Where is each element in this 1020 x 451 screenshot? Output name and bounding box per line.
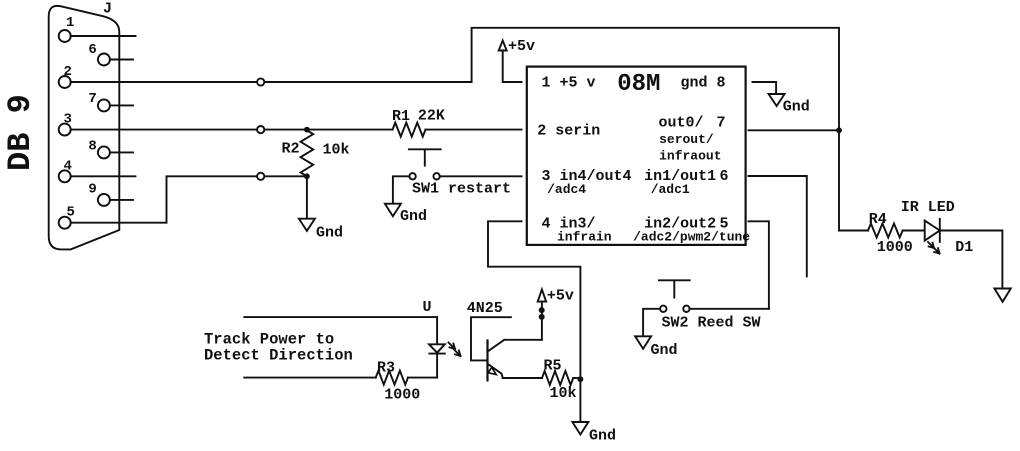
svg-text:/adc1: /adc1: [651, 182, 690, 197]
optocoupler 4N25 bracket: [471, 317, 511, 360]
IC U1 08M box: [527, 67, 746, 245]
svg-text:2 serin: 2 serin: [537, 123, 600, 140]
wire IC pin6 dangling: [749, 176, 807, 276]
connector J pin 4: [59, 170, 71, 182]
svg-text:IR LED: IR LED: [901, 199, 955, 216]
svg-text:DB 9: DB 9: [2, 94, 39, 171]
svg-text:3: 3: [64, 112, 72, 128]
wire SW2 right: [690, 308, 769, 310]
svg-text:7: 7: [717, 115, 726, 132]
transistor Q1 phototransistor: [486, 341, 488, 381]
node junction R2 top: [304, 127, 310, 133]
wire rail to R4: [839, 230, 868, 232]
resistor R4: [868, 224, 903, 238]
wire pin8 stub: [110, 151, 133, 153]
node junction R2 bottom: [304, 173, 310, 179]
svg-text:Gnd: Gnd: [316, 225, 343, 242]
wire track power bottom: [244, 377, 375, 379]
svg-text:R4: R4: [869, 211, 887, 228]
connector J pin 8: [98, 146, 110, 158]
wire net pin2 to top rail: [71, 28, 839, 231]
switch SW1 restart: [409, 149, 441, 165]
node junction out0 rail: [836, 127, 842, 133]
connector J pin 3: [59, 124, 71, 136]
svg-text:gnd 8: gnd 8: [681, 75, 726, 92]
svg-text:2: 2: [64, 64, 72, 80]
node junction R5 right: [578, 376, 584, 382]
wire R5 to junction: [573, 377, 580, 379]
svg-text:/adc2/pwm2/tune: /adc2/pwm2/tune: [633, 230, 750, 245]
power +5v top arrow: [499, 41, 507, 51]
svg-text:9: 9: [88, 182, 96, 198]
connector J pin 2: [59, 76, 71, 88]
wire pin1 stub: [71, 35, 136, 37]
node open terminal row3: [257, 173, 264, 180]
wire +5v to collector: [541, 302, 543, 340]
svg-text:1000: 1000: [877, 239, 913, 256]
node open terminal row1: [257, 78, 264, 85]
svg-text:Gnd: Gnd: [400, 208, 427, 225]
ground symbol SW2: [635, 336, 651, 349]
wire emitter to R5: [503, 377, 542, 379]
svg-text:4: 4: [64, 159, 72, 175]
svg-text:+5v: +5v: [508, 38, 535, 55]
wire net pin5 ground dogleg: [71, 176, 307, 222]
connector J pin 1: [59, 30, 71, 42]
svg-text:Gnd: Gnd: [783, 99, 810, 116]
connector J pin 5: [59, 217, 71, 229]
svg-text:+5v: +5v: [547, 288, 574, 305]
wire IC pin4 net: [488, 221, 580, 422]
svg-text:10k: 10k: [323, 142, 350, 159]
svg-text:1000: 1000: [384, 387, 420, 404]
wire R3 to LED: [408, 377, 437, 379]
connector J pin 6: [98, 54, 110, 66]
ground symbol pin8: [769, 94, 785, 106]
svg-text:R5: R5: [544, 358, 562, 375]
svg-text:U: U: [423, 299, 432, 316]
svg-text:4N25: 4N25: [467, 300, 503, 317]
connector J DB9 outline: [49, 6, 120, 250]
svg-text:8: 8: [88, 139, 96, 155]
svg-text:6: 6: [720, 168, 729, 185]
wire IC pin8 to ground: [753, 82, 777, 93]
wire pin7 stub: [110, 104, 133, 106]
transistor emitter arrowhead: [488, 367, 496, 374]
svg-text:infraout: infraout: [659, 149, 721, 164]
wire IC pin5 to SW2: [749, 221, 769, 308]
svg-text:R3: R3: [377, 360, 395, 377]
wire pin9 stub: [110, 199, 133, 201]
resistor R1: [393, 123, 426, 137]
resistor R5: [542, 371, 573, 385]
svg-text:infrain: infrain: [557, 230, 612, 245]
svg-text:Detect Direction: Detect Direction: [204, 347, 353, 365]
LED U emission arrows: [449, 343, 456, 350]
node dot upper: [539, 307, 545, 313]
wire net serin left segment: [71, 129, 393, 131]
power +5v mid arrow: [538, 289, 546, 301]
wire D1 to arrow: [940, 231, 1003, 289]
arrow terminal bottom right: [994, 289, 1010, 302]
svg-text:R2: R2: [282, 141, 300, 158]
LED U of optocoupler: [429, 344, 445, 352]
svg-text:08M: 08M: [617, 71, 660, 98]
wire pin4 stub dangling: [71, 175, 136, 177]
wire R2 to ground: [306, 176, 308, 218]
connector J pin 7: [98, 99, 110, 111]
svg-text:5: 5: [67, 205, 75, 221]
wire SW1 left to ground: [393, 176, 410, 203]
svg-text:22K: 22K: [418, 108, 445, 125]
svg-text:serout/: serout/: [659, 132, 714, 147]
wire pin6 stub: [110, 59, 133, 61]
connector J pin 9: [98, 194, 110, 206]
svg-text:SW2 Reed SW: SW2 Reed SW: [662, 315, 761, 332]
wire LED to bottom: [436, 354, 438, 378]
LED D1 IR LED: [925, 221, 940, 241]
svg-text:Gnd: Gnd: [651, 342, 678, 359]
node open terminal row2: [257, 126, 264, 133]
svg-text:D1: D1: [955, 239, 973, 256]
wire SW1 right to IC pin3: [440, 175, 522, 177]
resistor R2: [301, 130, 314, 176]
wire +5v to IC pin1: [503, 51, 522, 83]
svg-text:SW1 restart: SW1 restart: [412, 181, 511, 198]
svg-text:out0/: out0/: [659, 115, 704, 132]
svg-text:J: J: [103, 1, 112, 18]
wire SW2 left to ground: [643, 309, 660, 336]
svg-text:7: 7: [88, 91, 96, 107]
svg-text:6: 6: [88, 42, 96, 58]
node dot lower: [539, 314, 545, 320]
ground symbol below R2: [299, 219, 315, 231]
wire track power top: [244, 317, 437, 344]
svg-text:R1: R1: [392, 108, 410, 125]
svg-text:1: 1: [66, 15, 74, 31]
LED D1 emission arrows: [928, 242, 934, 248]
svg-text:/adc4: /adc4: [547, 182, 586, 197]
ground symbol SW1: [385, 204, 401, 217]
svg-text:10k: 10k: [550, 385, 577, 402]
svg-text:Gnd: Gnd: [589, 428, 616, 445]
wire IC pin7 out0: [749, 129, 840, 131]
ground symbol bottom: [572, 422, 588, 435]
switch SW2 Reed SW: [659, 280, 690, 297]
svg-text:1 +5 v: 1 +5 v: [542, 75, 596, 92]
resistor R3: [376, 371, 408, 385]
wire R4 to LED D1: [903, 230, 925, 232]
wire net serin right segment: [426, 129, 522, 131]
